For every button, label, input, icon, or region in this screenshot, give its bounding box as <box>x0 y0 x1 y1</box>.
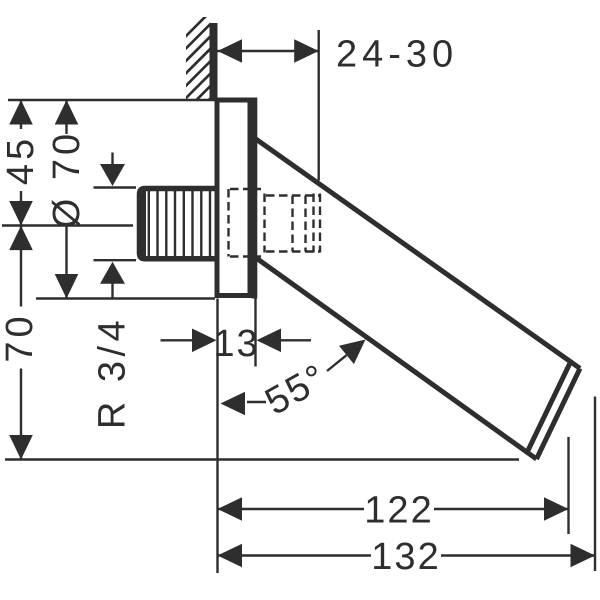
label 122 <box>364 490 434 532</box>
thread line 7 <box>200 191 202 256</box>
hidden socket bottom <box>266 250 320 252</box>
thread line 1 <box>148 191 150 256</box>
hidden thread bottom <box>230 255 261 257</box>
extension line plate bottom <box>36 297 215 299</box>
nipple chamfer band <box>137 186 146 261</box>
thread dia arrow bottom <box>100 262 125 284</box>
hidden socket vertical b <box>304 196 306 252</box>
arrow 132 left <box>218 544 243 568</box>
wall extension line below plate <box>216 299 218 574</box>
wall face line <box>210 23 218 100</box>
label 55 deg <box>259 356 335 424</box>
svg-text:13: 13 <box>213 323 259 365</box>
arrow 13 left <box>192 329 217 353</box>
thread dia ext bottom <box>94 259 137 261</box>
thread line 5 <box>183 191 185 256</box>
leader 55 left arrow <box>221 392 246 416</box>
thread line 2 <box>156 191 158 256</box>
label 70 <box>0 307 41 369</box>
thread line 6 <box>191 191 193 256</box>
arrow 70 bottom <box>9 435 33 460</box>
arrow 132 right <box>571 544 596 568</box>
escutcheon plate <box>217 100 250 296</box>
dimension 13 left tail <box>161 339 195 341</box>
label 132 <box>371 536 441 578</box>
leader 55 left line <box>247 401 266 403</box>
dimension diameter 70 line <box>65 100 67 299</box>
wall hatching <box>180 8 214 129</box>
dimension 132 line <box>218 554 596 556</box>
dimension 45 line <box>20 100 22 226</box>
extension line 122 right <box>567 437 569 534</box>
thread line 4 <box>174 191 176 256</box>
svg-text:132: 132 <box>371 536 440 578</box>
bottom extension line from pipe tip <box>5 458 519 460</box>
plate front extension line below <box>254 299 256 367</box>
svg-text:Ø 70: Ø 70 <box>46 130 88 228</box>
hidden thread top <box>230 188 261 190</box>
centerline <box>2 224 133 226</box>
extension line 24-30 right <box>318 30 320 181</box>
thread line 3 <box>165 191 167 256</box>
dimension 122 line <box>218 508 569 510</box>
arrow 122 left <box>218 497 243 521</box>
thread dia ext top <box>94 186 137 188</box>
label R 3/4 <box>92 316 134 429</box>
pipe top edge <box>253 137 580 368</box>
thread line 8 <box>209 191 211 256</box>
label dia 70 <box>46 130 88 228</box>
hidden socket end <box>319 194 321 253</box>
pipe bottom edge <box>253 256 537 459</box>
extension line plate top left <box>8 99 215 101</box>
thread dia arrow top tail <box>111 153 113 167</box>
svg-text:24-30: 24-30 <box>336 34 458 76</box>
arrow 45 bottom <box>9 201 33 226</box>
svg-text:55°: 55° <box>259 356 335 424</box>
dimension 24-30 line <box>218 50 319 52</box>
thread dia arrow top <box>100 164 125 186</box>
hidden socket left <box>263 194 265 253</box>
pipe spray band <box>527 362 571 453</box>
dimension 13 right tail <box>280 339 312 341</box>
svg-text:70: 70 <box>0 312 41 362</box>
plate front edge <box>252 98 258 299</box>
extension line 132 right <box>594 397 596 572</box>
arrow dia70 bottom <box>55 274 79 299</box>
svg-text:R 3/4: R 3/4 <box>92 316 134 429</box>
arrow 45 top <box>9 100 33 125</box>
arrow 24-30 left <box>218 39 243 63</box>
label 45 <box>0 129 42 191</box>
svg-text:122: 122 <box>364 490 433 532</box>
leader 55 right line <box>327 355 347 371</box>
dimension 70 line <box>20 226 22 460</box>
leader 55 right arrow <box>339 340 366 365</box>
arrow 24-30 right <box>294 39 319 63</box>
hidden thread in plate vertical <box>227 189 229 257</box>
hidden socket vertical a <box>291 196 293 252</box>
svg-text:45: 45 <box>0 135 42 185</box>
arrow 70 top <box>9 226 33 251</box>
hidden socket top <box>266 194 320 196</box>
arrow 122 right <box>544 497 569 521</box>
hidden socket vertical c <box>312 194 314 253</box>
thread dia arrow bottom tail <box>111 282 113 298</box>
pipe end face <box>537 368 581 459</box>
arrow dia70 top <box>55 100 79 125</box>
arrow 13 right <box>257 329 282 353</box>
threaded nipple body <box>140 189 219 259</box>
